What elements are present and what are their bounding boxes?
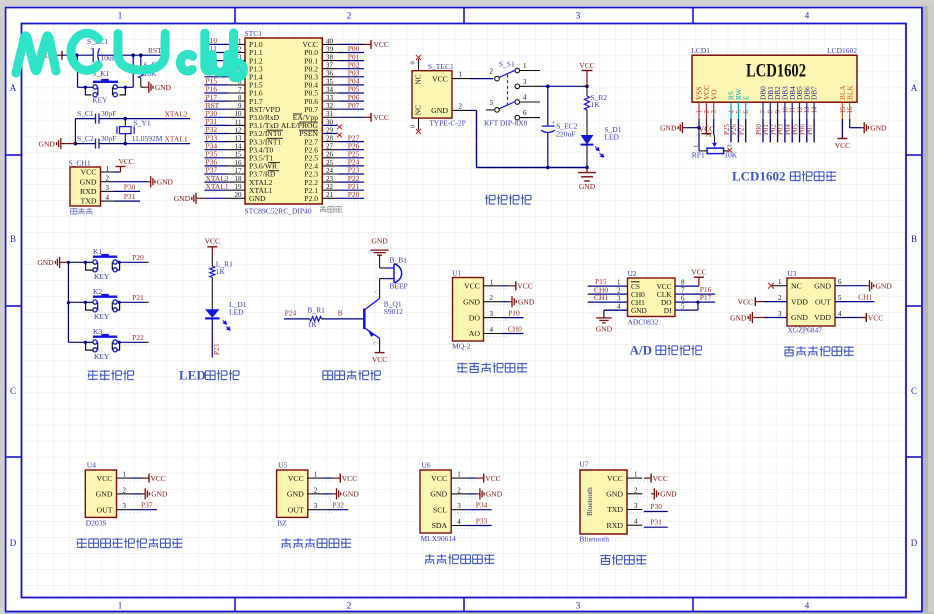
svg-text:VCC: VCC xyxy=(288,474,304,483)
svg-text:4: 4 xyxy=(805,11,810,21)
key K1 xyxy=(84,261,93,263)
power port VCC (U1) xyxy=(502,285,509,287)
svg-text:1K: 1K xyxy=(591,100,601,109)
capacitor S_EC1 10uF xyxy=(92,48,94,62)
svg-text:5: 5 xyxy=(838,294,842,302)
svg-text:11: 11 xyxy=(790,107,797,114)
svg-text:D: D xyxy=(10,538,17,548)
label key circuit xyxy=(88,370,98,372)
svg-text:GND: GND xyxy=(249,194,266,203)
svg-text:11.0592M: 11.0592M xyxy=(132,134,163,143)
svg-text:VCC: VCC xyxy=(868,313,883,322)
LED S_D1 xyxy=(586,110,588,135)
svg-text:1: 1 xyxy=(778,278,782,286)
svg-text:0: 0 xyxy=(410,125,417,128)
svg-text:P07: P07 xyxy=(806,124,814,135)
wire/net label P26 xyxy=(737,119,739,143)
svg-text:U2: U2 xyxy=(628,269,637,278)
svg-text:NC: NC xyxy=(414,74,423,84)
svg-text:e: e xyxy=(373,340,376,347)
svg-text:1: 1 xyxy=(106,165,110,173)
svg-text:2: 2 xyxy=(347,11,352,21)
svg-text:1: 1 xyxy=(457,471,461,479)
svg-text:VCC: VCC xyxy=(517,282,532,291)
svg-text:SCL: SCL xyxy=(433,505,448,514)
svg-text:VCC: VCC xyxy=(653,474,668,483)
svg-text:RP1: RP1 xyxy=(692,151,705,160)
ground (U7) xyxy=(651,493,654,495)
svg-text:7: 7 xyxy=(760,110,767,114)
svg-text:1: 1 xyxy=(118,11,123,21)
svg-text:XTAL1: XTAL1 xyxy=(165,135,188,144)
svg-text:P30: P30 xyxy=(124,183,136,192)
svg-text:OUT: OUT xyxy=(96,505,112,514)
svg-text:4: 4 xyxy=(838,310,842,318)
ground (reset resistor) xyxy=(141,86,146,88)
svg-text:3: 3 xyxy=(523,78,527,86)
svg-text:1: 1 xyxy=(123,471,127,479)
svg-text:BZ: BZ xyxy=(277,519,287,528)
svg-text:4: 4 xyxy=(523,94,527,102)
svg-text:4: 4 xyxy=(805,601,810,611)
svg-text:KEY: KEY xyxy=(92,96,108,105)
svg-text:S_S1: S_S1 xyxy=(499,59,515,68)
svg-text:GND: GND xyxy=(606,490,623,499)
svg-text:1: 1 xyxy=(634,471,638,479)
power port VCC (MCU) xyxy=(364,116,371,118)
net label P16 xyxy=(675,293,715,295)
net label P37 xyxy=(132,509,158,511)
power port VCC (U7) xyxy=(644,477,651,479)
svg-text:GND: GND xyxy=(37,258,54,267)
svg-text:2: 2 xyxy=(490,68,494,76)
svg-text:TXD: TXD xyxy=(80,197,96,206)
resistor L_R1 1K xyxy=(211,255,213,267)
svg-text:VCC: VCC xyxy=(119,157,134,166)
svg-text:P07: P07 xyxy=(348,101,360,110)
ground (U2) xyxy=(604,309,628,311)
svg-text:XGZP6847: XGZP6847 xyxy=(787,326,822,335)
svg-text:VCC: VCC xyxy=(80,168,96,177)
svg-text:P24: P24 xyxy=(285,309,297,318)
svg-text:P30: P30 xyxy=(650,502,662,511)
svg-text:3: 3 xyxy=(314,502,318,510)
svg-text:GND: GND xyxy=(343,490,360,499)
svg-text:GND: GND xyxy=(486,490,503,499)
svg-text:A: A xyxy=(10,83,17,93)
svg-text:2: 2 xyxy=(314,486,318,494)
svg-text:7: 7 xyxy=(681,287,685,295)
svg-text:2: 2 xyxy=(106,175,110,183)
svg-text:GND: GND xyxy=(287,490,304,499)
svg-text:VCC: VCC xyxy=(96,474,112,483)
svg-text:GND: GND xyxy=(791,313,808,322)
net label P33 xyxy=(466,525,492,527)
svg-text:LCD1602: LCD1602 xyxy=(732,168,785,183)
svg-text:2: 2 xyxy=(634,486,638,494)
power port VCC (LCD BLA) xyxy=(841,119,843,139)
power port VCC (U3 pin4) xyxy=(835,317,866,319)
svg-text:P37: P37 xyxy=(141,501,153,510)
svg-text:LED: LED xyxy=(229,308,244,317)
svg-text:RXD: RXD xyxy=(607,521,624,530)
svg-text:P20: P20 xyxy=(348,190,360,199)
svg-text:GND: GND xyxy=(96,490,113,499)
svg-text:S_C1: S_C1 xyxy=(77,109,94,118)
svg-text:8: 8 xyxy=(768,110,775,114)
label power circuit xyxy=(486,195,488,205)
svg-text:ADC0832: ADC0832 xyxy=(628,318,659,327)
buzzer B_B1 BEEP xyxy=(379,255,381,268)
svg-text:LED: LED xyxy=(604,133,619,142)
resistor S_R2 1K xyxy=(586,86,588,96)
svg-text:GND: GND xyxy=(814,281,831,290)
wire reset rail xyxy=(62,54,93,56)
svg-text:OUT: OUT xyxy=(288,505,304,514)
svg-text:XTAL1: XTAL1 xyxy=(206,182,229,191)
svg-text:VCC: VCC xyxy=(151,474,166,483)
wire/net label P00 xyxy=(762,119,764,143)
ground (MCU pin20) xyxy=(196,197,199,199)
svg-text:4: 4 xyxy=(490,326,494,334)
svg-text:3: 3 xyxy=(490,310,494,318)
svg-text:GND: GND xyxy=(430,490,447,499)
wire DI loop xyxy=(675,309,698,311)
svg-text:4: 4 xyxy=(634,518,638,526)
svg-text:GND: GND xyxy=(518,298,535,307)
power port VCC (reset) xyxy=(56,54,62,56)
svg-text:VCC: VCC xyxy=(342,474,357,483)
label bluetooth module xyxy=(600,555,610,557)
power port VCC (buzzer) xyxy=(379,338,381,352)
capacitor S_C2 30pF xyxy=(95,139,97,149)
label U5 module xyxy=(282,539,291,541)
crystal S_Y1 11.0592M xyxy=(124,117,128,121)
svg-text:Bluetooth: Bluetooth xyxy=(579,535,609,544)
svg-text:VCC: VCC xyxy=(607,474,623,483)
svg-text:RXD: RXD xyxy=(80,187,97,196)
svg-text:S_TEC1: S_TEC1 xyxy=(428,62,454,71)
ground xyxy=(132,493,143,495)
svg-text:P32: P32 xyxy=(332,501,344,510)
svg-text:P2.0: P2.0 xyxy=(304,194,318,203)
svg-text:6: 6 xyxy=(838,278,842,286)
svg-text:B: B xyxy=(338,309,343,318)
svg-text:GND: GND xyxy=(660,124,677,133)
svg-text:GND: GND xyxy=(157,178,174,187)
svg-text:1: 1 xyxy=(490,278,494,286)
svg-text:1: 1 xyxy=(696,110,703,113)
pin 0 shield top xyxy=(418,59,420,71)
svg-text:P34: P34 xyxy=(476,501,488,510)
capacitor S_EC2 220uF xyxy=(547,86,549,126)
net label P31 (download) xyxy=(114,200,140,202)
svg-text:GND: GND xyxy=(431,106,448,115)
svg-text:4: 4 xyxy=(617,303,621,311)
svg-text:30pF: 30pF xyxy=(101,109,116,118)
logo MCUclub xyxy=(16,36,56,73)
wire/net label P04 xyxy=(791,119,793,143)
svg-text:VCC: VCC xyxy=(374,40,389,49)
svg-text:VCC: VCC xyxy=(431,474,447,483)
svg-text:VCC: VCC xyxy=(579,61,594,70)
label download port xyxy=(71,207,77,209)
svg-text:VCC: VCC xyxy=(464,282,480,291)
svg-text:VO: VO xyxy=(709,89,718,100)
svg-text:STC89C52RC_DIP40: STC89C52RC_DIP40 xyxy=(245,207,312,216)
svg-text:10K: 10K xyxy=(724,151,738,160)
svg-text:6: 6 xyxy=(743,110,750,114)
svg-text:B: B xyxy=(911,234,917,244)
svg-text:GND: GND xyxy=(660,490,677,499)
svg-text:0: 0 xyxy=(410,61,417,64)
svg-text:S_C2: S_C2 xyxy=(77,134,94,143)
svg-text:LED: LED xyxy=(179,367,206,382)
svg-text:15: 15 xyxy=(840,106,847,113)
svg-text:30pF: 30pF xyxy=(101,134,116,143)
svg-text:GND: GND xyxy=(870,124,887,133)
resistor B_R1 1K + net labels xyxy=(284,318,310,320)
ground (U3 pin6) xyxy=(835,285,866,287)
svg-text:U5: U5 xyxy=(278,461,287,470)
svg-text:12: 12 xyxy=(797,106,804,113)
svg-text:BLK: BLK xyxy=(845,85,854,100)
pin 0 shield bottom xyxy=(418,118,420,130)
label smoke module xyxy=(457,363,467,365)
key K3 xyxy=(84,341,93,343)
svg-text:3: 3 xyxy=(106,184,110,192)
net label P30 (U7) xyxy=(644,511,668,513)
ground (power circuit) xyxy=(585,166,589,170)
svg-text:2: 2 xyxy=(459,102,463,110)
capacitor S_C1 30pF xyxy=(95,114,97,124)
svg-text:c: c xyxy=(375,289,378,296)
ground (LCD BLK) xyxy=(849,119,851,128)
svg-text:3: 3 xyxy=(634,502,638,510)
svg-text:5: 5 xyxy=(736,110,743,114)
svg-text:220uF: 220uF xyxy=(556,130,575,139)
svg-text:GND: GND xyxy=(80,177,97,186)
svg-text:GND: GND xyxy=(596,325,613,334)
svg-text:P10: P10 xyxy=(508,309,520,318)
svg-text:S9012: S9012 xyxy=(384,307,403,316)
svg-text:1K: 1K xyxy=(308,320,318,329)
svg-text:U7: U7 xyxy=(579,460,588,469)
svg-text:GND: GND xyxy=(876,282,893,291)
power port VCC (LCD pin2) xyxy=(705,119,707,134)
no-connect X xyxy=(337,133,342,138)
svg-text:13: 13 xyxy=(804,106,811,113)
svg-text:4: 4 xyxy=(457,518,461,526)
svg-text:P23: P23 xyxy=(213,344,221,355)
svg-text:8: 8 xyxy=(681,279,685,287)
wire/net label P06 xyxy=(806,119,808,143)
wire/net label P01 xyxy=(769,119,771,143)
svg-text:2: 2 xyxy=(706,134,713,137)
svg-text:LCD1602: LCD1602 xyxy=(827,46,857,55)
svg-text:GND: GND xyxy=(730,313,747,322)
svg-text:MLX90614: MLX90614 xyxy=(421,534,457,543)
svg-text:3: 3 xyxy=(457,502,461,510)
svg-text:CH0: CH0 xyxy=(508,325,522,334)
svg-text:5: 5 xyxy=(681,303,685,311)
svg-text:6: 6 xyxy=(523,109,527,117)
svg-text:K3: K3 xyxy=(93,327,102,336)
net label CH1 (U3) xyxy=(835,301,875,303)
net label P32 xyxy=(323,509,349,511)
svg-text:2: 2 xyxy=(617,287,621,295)
svg-text:VCC: VCC xyxy=(691,268,706,277)
svg-text:E: E xyxy=(741,95,750,100)
wire + net label P23 xyxy=(211,318,213,357)
label U6 module xyxy=(425,555,434,557)
svg-text:LCD1602: LCD1602 xyxy=(746,60,806,81)
potentiometer RP1 10K xyxy=(698,128,700,151)
svg-text:2: 2 xyxy=(347,601,352,611)
svg-text:P20: P20 xyxy=(132,253,144,262)
label blood pressure module xyxy=(784,346,794,348)
svg-text:RST: RST xyxy=(148,46,162,55)
svg-text:KEY: KEY xyxy=(94,312,110,321)
svg-text:VCC: VCC xyxy=(699,125,714,134)
wire cap left vertical xyxy=(75,118,95,120)
key K2 xyxy=(84,301,93,303)
wire/net label P03 xyxy=(784,119,786,143)
svg-text:DO: DO xyxy=(469,313,481,322)
label U4 module xyxy=(77,538,87,540)
svg-text:TYPE-C-2P: TYPE-C-2P xyxy=(429,119,466,128)
svg-text:VDD: VDD xyxy=(791,297,808,306)
power port VCC (U2) xyxy=(675,285,699,287)
resistor S_R1 10K xyxy=(140,55,142,66)
svg-text:K1: K1 xyxy=(93,247,102,256)
svg-text:1K: 1K xyxy=(216,267,226,276)
svg-text:3: 3 xyxy=(576,11,581,21)
svg-text:GND: GND xyxy=(463,297,480,306)
svg-text:GND: GND xyxy=(155,83,172,92)
svg-text:B_B1: B_B1 xyxy=(389,256,407,265)
svg-text:2: 2 xyxy=(123,486,127,494)
svg-text:3: 3 xyxy=(711,110,718,114)
svg-text:6: 6 xyxy=(681,295,685,303)
ground (U3 pin3) xyxy=(752,317,755,319)
svg-text:A: A xyxy=(911,83,918,93)
wire key rail xyxy=(67,262,69,342)
svg-text:C: C xyxy=(10,386,16,396)
svg-text:GND: GND xyxy=(174,194,191,203)
svg-text:14: 14 xyxy=(812,106,819,113)
net label CH0 (U1) xyxy=(502,333,524,335)
svg-text:TXD: TXD xyxy=(607,505,623,514)
svg-text:D203S: D203S xyxy=(86,519,107,528)
svg-text:1: 1 xyxy=(118,601,123,611)
svg-text:KFT DIP-8X8: KFT DIP-8X8 xyxy=(484,119,528,128)
net label P34 xyxy=(466,509,492,511)
svg-text:GND: GND xyxy=(39,139,56,148)
svg-text:S_Y1: S_Y1 xyxy=(134,119,151,128)
wire/net label P05 xyxy=(799,119,801,143)
svg-text:3: 3 xyxy=(778,310,782,318)
svg-text:P31: P31 xyxy=(650,518,662,527)
svg-text:DI: DI xyxy=(664,306,672,315)
svg-text:VCC: VCC xyxy=(738,297,753,306)
net label P10 (U1) xyxy=(502,317,524,319)
svg-text:CH1: CH1 xyxy=(858,293,872,302)
wire XTAL2 xyxy=(99,118,190,120)
svg-text:C: C xyxy=(911,386,917,396)
svg-text:K2: K2 xyxy=(93,287,102,296)
net label P17 xyxy=(675,301,715,303)
svg-text:CH1: CH1 xyxy=(594,293,608,302)
svg-text:NC: NC xyxy=(414,105,423,115)
svg-text:BEEP: BEEP xyxy=(389,282,407,291)
net label P30 (download) xyxy=(114,190,140,192)
ground (key circuit) xyxy=(60,261,63,263)
svg-text:AO: AO xyxy=(469,329,481,338)
wire/net label P25 xyxy=(730,119,732,143)
ground (download) xyxy=(114,181,148,183)
svg-text:4: 4 xyxy=(728,110,735,114)
svg-text:LCD1: LCD1 xyxy=(691,46,710,55)
svg-text:3: 3 xyxy=(617,295,621,303)
pin 2 GND wire xyxy=(452,109,470,111)
power port VCC xyxy=(132,477,143,479)
svg-text:9: 9 xyxy=(775,110,782,114)
svg-text:GND: GND xyxy=(151,490,168,499)
svg-text:P33: P33 xyxy=(476,517,488,526)
svg-text:1: 1 xyxy=(693,145,700,148)
svg-text:VCC: VCC xyxy=(432,75,448,84)
svg-text:S_CH1: S_CH1 xyxy=(69,159,91,168)
svg-text:P22: P22 xyxy=(132,333,144,342)
svg-text:3: 3 xyxy=(576,601,581,611)
svg-text:VCC: VCC xyxy=(374,113,389,122)
label buzzer circuit xyxy=(323,370,333,372)
svg-text:U4: U4 xyxy=(87,461,96,470)
power port VCC xyxy=(466,477,477,479)
net label P31 (U7) xyxy=(644,526,668,528)
svg-text:2: 2 xyxy=(704,110,711,114)
svg-text:NC: NC xyxy=(791,281,802,290)
svg-text:VCC: VCC xyxy=(372,355,387,364)
svg-text:DB7: DB7 xyxy=(810,86,819,100)
svg-text:XTAL2: XTAL2 xyxy=(165,110,188,119)
svg-text:Bluetooth: Bluetooth xyxy=(585,487,594,516)
svg-text:VCC: VCC xyxy=(205,237,220,246)
svg-text:MQ-2: MQ-2 xyxy=(452,342,471,351)
svg-text:KEY: KEY xyxy=(94,272,110,281)
switch levers + dashed linkage xyxy=(499,70,515,77)
key S_K1 xyxy=(77,55,79,87)
svg-text:OUT: OUT xyxy=(815,297,831,306)
wire/net label P07 xyxy=(813,119,815,143)
svg-text:U1: U1 xyxy=(452,269,461,278)
svg-text:2: 2 xyxy=(778,294,782,302)
svg-text:B: B xyxy=(10,234,16,244)
svg-text:B_R1: B_R1 xyxy=(307,306,325,315)
svg-text:P31: P31 xyxy=(124,192,136,201)
power port VCC (download) xyxy=(114,171,121,173)
no-connect X xyxy=(337,125,342,130)
svg-text:VCC: VCC xyxy=(835,141,850,150)
svg-text:P21: P21 xyxy=(132,293,144,302)
svg-text:STC1: STC1 xyxy=(245,29,263,38)
pin 1 VCC wire xyxy=(452,78,470,80)
LED L_D1 xyxy=(211,278,213,310)
svg-text:A/D: A/D xyxy=(630,342,652,357)
svg-text:VCC: VCC xyxy=(485,474,500,483)
svg-text:5: 5 xyxy=(490,99,494,107)
